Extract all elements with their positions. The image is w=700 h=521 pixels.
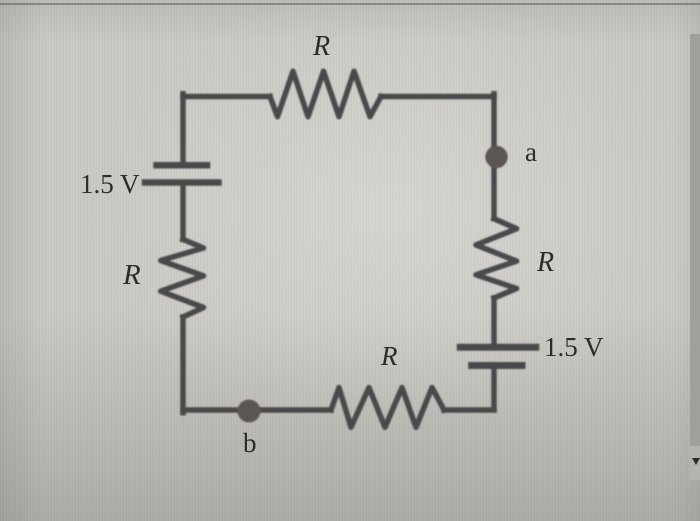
resistor R top — [270, 71, 381, 117]
node a — [485, 146, 507, 168]
battery B2 short plate — [472, 362, 522, 369]
battery B1 short plate — [157, 162, 208, 169]
label 1.5 V right — [544, 332, 604, 363]
resistor R right — [476, 219, 517, 298]
scrollbar track right — [690, 34, 700, 446]
label R bottom — [381, 341, 398, 372]
wire left side bottom-left corner up to left resistor — [180, 317, 186, 413]
label node a — [525, 137, 537, 168]
wire battery to bottom-right corner — [491, 369, 497, 410]
battery B1 long plate — [145, 179, 219, 186]
resistor R left — [161, 239, 204, 317]
wire top-left corner to top resistor — [183, 94, 270, 100]
wire right resistor to battery — [491, 298, 497, 344]
wire right side down through node a — [491, 94, 497, 219]
label node b — [243, 428, 257, 459]
wire bottom-right corner to bottom resistor — [444, 407, 494, 413]
battery B2 long plate — [460, 344, 535, 351]
wire bottom resistor through node b to bottom-left corner — [183, 407, 331, 413]
wire left resistor up to battery — [180, 186, 186, 239]
label R top — [313, 31, 330, 63]
node b — [238, 400, 261, 423]
top screen edge line — [0, 3, 700, 5]
wire top resistor to top-right corner — [381, 94, 494, 100]
wire battery up to top-left corner — [180, 94, 186, 162]
label 1.5 V left — [80, 169, 140, 200]
scrollbar lighter section — [690, 446, 700, 480]
resistor R bottom — [331, 388, 444, 428]
label R right — [537, 247, 554, 279]
label R left — [123, 259, 141, 292]
